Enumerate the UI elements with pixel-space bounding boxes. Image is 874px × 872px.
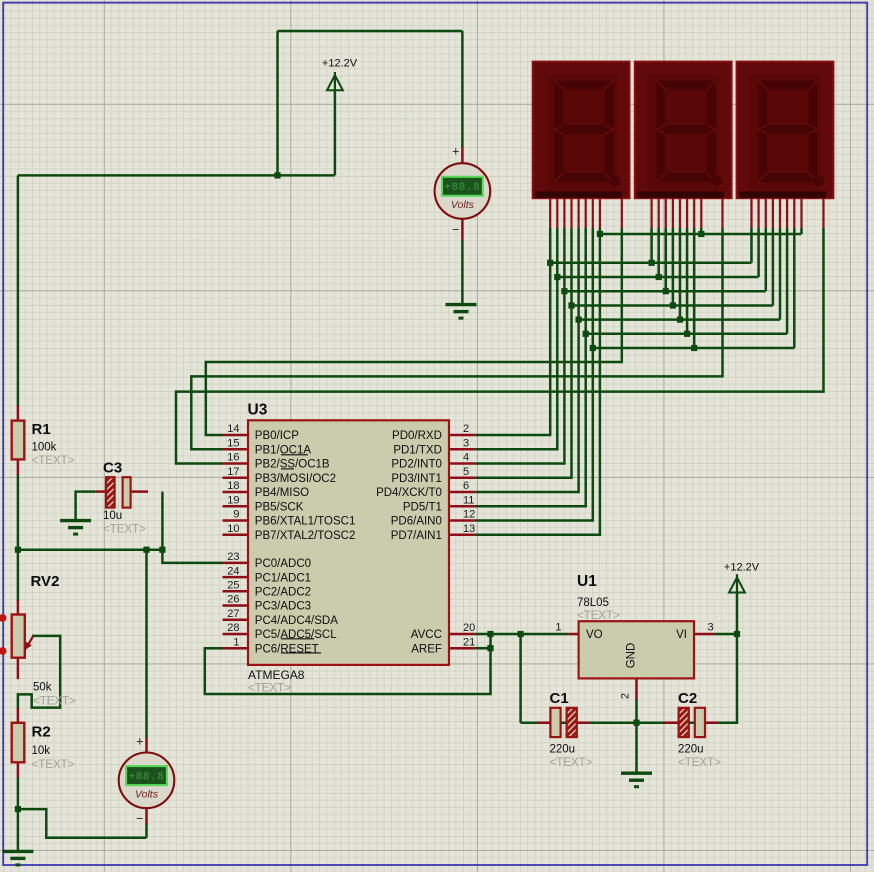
- pin stub C1 right: [577, 721, 590, 724]
- node junction at 737,634: [734, 631, 740, 637]
- pin stub R2 bottom: [17, 762, 20, 777]
- 7-segment display D1: [533, 62, 630, 199]
- wire PC6/RESET loop: [205, 634, 491, 694]
- svg-text:PC0/ADC0: PC0/ADC0: [255, 558, 311, 570]
- svg-text:PB6/XTAL1/TOSC1: PB6/XTAL1/TOSC1: [255, 516, 356, 528]
- svg-text:R1: R1: [32, 421, 51, 438]
- pin stub C3 right: [130, 490, 148, 493]
- svg-text:PB3/MOSI/OC2: PB3/MOSI/OC2: [255, 473, 336, 485]
- 7-segment display D2: [635, 62, 732, 199]
- wire PB0 to display1 common: [206, 228, 622, 435]
- power +12.2V symbol top left: [327, 72, 343, 92]
- svg-text:18: 18: [227, 480, 239, 492]
- wire voltmeter2 bottom route: [18, 809, 147, 838]
- ground near U1: [621, 773, 652, 787]
- svg-text:14: 14: [227, 423, 239, 435]
- ground near C3: [60, 521, 91, 535]
- svg-text:5: 5: [463, 466, 469, 478]
- node junction sege display2: [677, 317, 683, 323]
- capacitor C3: [106, 477, 131, 507]
- svg-text:U1: U1: [577, 573, 597, 590]
- node junction at 520.6,634.0: [518, 631, 524, 637]
- node junction at 17.9,809.1: [15, 806, 21, 812]
- svg-text:+88.8: +88.8: [128, 771, 164, 783]
- wire R1 bottom to junction: [17, 474, 20, 549]
- node junction at 490.5,634.0: [487, 631, 493, 637]
- voltmeter V2 body: [119, 753, 175, 809]
- svg-text:15: 15: [227, 438, 239, 450]
- svg-text:Volts: Volts: [451, 199, 475, 211]
- svg-text:10u: 10u: [103, 510, 122, 522]
- svg-text:<TEXT>: <TEXT>: [248, 683, 291, 695]
- wire PB2 to display3 common: [176, 228, 824, 464]
- svg-text:21: 21: [463, 636, 475, 648]
- svg-text:100k: 100k: [32, 442, 57, 454]
- svg-text:+12.2V: +12.2V: [724, 562, 760, 574]
- svg-text:PC3/ADC3: PC3/ADC3: [255, 601, 311, 613]
- svg-text:−: −: [136, 812, 143, 826]
- svg-text:2: 2: [620, 693, 632, 699]
- wire PD5 pin11 stub run: [475, 228, 586, 506]
- U3 PC pin stubs 23 24 25 26 27 28 1: [223, 563, 249, 648]
- node junction segc display1: [561, 288, 567, 294]
- voltmeter V1 LCD readout +88.8: [442, 177, 483, 196]
- display1 pins: [550, 198, 622, 228]
- U3 overlines on SS ADC5 RESET: [281, 455, 321, 653]
- svg-text:RV2: RV2: [31, 573, 60, 590]
- node junction at 146.5,549.7: [143, 547, 149, 553]
- pin stub RV2 top: [17, 600, 20, 614]
- node junction at 636.5,722.7: [633, 720, 639, 726]
- wire voltmeter1 bottom to ground: [461, 240, 464, 304]
- wire segment net d tie line: [572, 304, 773, 307]
- node junction at 162.4,549.7: [159, 547, 165, 553]
- wire voltmeter2 top lead: [145, 550, 148, 738]
- display2 pins: [652, 198, 723, 228]
- svg-text:C2: C2: [678, 690, 697, 707]
- pin stub C1 left: [537, 721, 550, 724]
- wire C1-C2 bottom rail: [521, 721, 737, 724]
- svg-text:220u: 220u: [550, 744, 576, 756]
- svg-text:220u: 220u: [678, 744, 704, 756]
- node junction segd display1: [568, 302, 574, 308]
- wire +12V rail horizontal: [18, 174, 335, 177]
- wire display3 pin6 drop: [786, 228, 789, 334]
- svg-text:PC5/ADC5/SCL: PC5/ADC5/SCL: [255, 629, 337, 641]
- node junction segg display2: [691, 345, 697, 351]
- svg-text:C1: C1: [550, 690, 569, 707]
- svg-text:PC2/ADC2: PC2/ADC2: [255, 587, 311, 599]
- U3 PB port labels: [255, 430, 356, 542]
- wire segment net e tie line: [579, 318, 780, 321]
- svg-text:<TEXT>: <TEXT>: [103, 524, 146, 536]
- node junction segb display2: [656, 274, 662, 280]
- node junction at 277.5,175.4: [274, 172, 280, 178]
- svg-text:C3: C3: [103, 460, 122, 477]
- node junction at 17.9,549.7: [15, 547, 21, 553]
- svg-text:1: 1: [233, 636, 239, 648]
- U3 PC port labels: [255, 558, 338, 655]
- svg-text:16: 16: [227, 452, 239, 464]
- capacitor C2: [679, 708, 705, 737]
- svg-text:PD1/TXD: PD1/TXD: [393, 445, 442, 457]
- svg-text:AREF: AREF: [411, 643, 442, 655]
- IC U1 body: [579, 621, 694, 678]
- svg-text:27: 27: [227, 608, 239, 620]
- wire C3 left lead to ground: [76, 492, 96, 521]
- wire display3 pin1 drop: [750, 228, 753, 263]
- ground near voltmeter V1: [446, 305, 477, 319]
- node junction segh display2: [698, 231, 704, 237]
- wire segment net g tie line: [593, 347, 795, 350]
- U3 left pin numbers PC: [227, 551, 239, 648]
- wire display2 pin5 drop: [679, 228, 682, 320]
- svg-text:<TEXT>: <TEXT>: [678, 757, 721, 769]
- wire voltmeter2 bottom lead: [145, 824, 148, 838]
- svg-text:20: 20: [463, 622, 475, 634]
- wire C1 left lead riser: [519, 634, 522, 723]
- wire display3 pin7 drop: [793, 228, 796, 348]
- svg-text:VI: VI: [676, 629, 687, 641]
- node junction segg display1: [590, 345, 596, 351]
- pin stub C2 left: [664, 721, 679, 724]
- node junction sega display1: [547, 260, 553, 266]
- wire AVCC to U1 VO: [475, 633, 568, 636]
- svg-text:78L05: 78L05: [577, 597, 609, 609]
- wire RV2 wiper path: [18, 636, 60, 709]
- svg-text:+: +: [452, 145, 459, 159]
- wire PD3 pin5 stub run: [475, 228, 572, 478]
- pin stub R2 top: [17, 709, 20, 724]
- svg-text:9: 9: [233, 509, 239, 521]
- wire voltmeter1 top lead: [461, 31, 464, 147]
- wire display3 pin4 drop: [772, 228, 775, 306]
- wire display3 pin3 drop: [765, 228, 768, 291]
- svg-text:PB5/SCK: PB5/SCK: [255, 502, 304, 514]
- wire segment net c tie line: [564, 290, 765, 293]
- U3 left pin numbers PB: [227, 423, 239, 535]
- power +12.2V symbol near U1: [729, 574, 745, 594]
- svg-text:24: 24: [227, 565, 239, 577]
- svg-text:PC6/RESET: PC6/RESET: [255, 643, 319, 655]
- svg-text:U3: U3: [248, 402, 268, 419]
- svg-text:<TEXT>: <TEXT>: [33, 696, 76, 708]
- svg-text:12: 12: [463, 509, 475, 521]
- wire display3 pin2 drop: [757, 228, 760, 277]
- node junction segd display2: [670, 302, 676, 308]
- svg-text:1: 1: [555, 622, 561, 634]
- wire PD6 pin12 stub run: [475, 228, 593, 521]
- pin stub C3 left: [96, 490, 107, 493]
- potentiometer RV2: [12, 615, 33, 658]
- wire PD0 pin2 stub run: [475, 228, 550, 435]
- wire segment net a tie line: [550, 262, 751, 265]
- svg-text:PD0/RXD: PD0/RXD: [392, 430, 442, 442]
- pin stub voltmeter1 plus: [461, 147, 464, 164]
- svg-text:11: 11: [463, 495, 474, 507]
- IC U3 body: [248, 420, 449, 665]
- svg-text:10k: 10k: [32, 745, 51, 757]
- wire U1 VI to +12V node: [715, 633, 738, 636]
- wire +12V top horizontal: [278, 30, 463, 33]
- U3 PB pin stubs 14 15 16 17 18 19 9 10: [223, 435, 249, 535]
- pin stub voltmeter1 minus: [461, 218, 464, 241]
- wire +12V vertical drop: [276, 31, 279, 175]
- node junction segh display1: [597, 231, 603, 237]
- node junction segf display1: [583, 331, 589, 337]
- wire display2 pin3 drop: [665, 228, 668, 291]
- svg-text:50k: 50k: [33, 682, 52, 694]
- wire display2 pin2 drop: [657, 228, 660, 277]
- svg-text:<TEXT>: <TEXT>: [32, 759, 75, 771]
- svg-text:28: 28: [227, 622, 239, 634]
- svg-text:6: 6: [463, 480, 469, 492]
- wire junction down to RV2: [17, 550, 20, 601]
- svg-text:R2: R2: [32, 724, 51, 741]
- wire +12V arrow2 stem: [736, 593, 739, 634]
- svg-text:PD5/T1: PD5/T1: [403, 502, 442, 514]
- pin stub C2 right: [705, 721, 718, 724]
- svg-text:AVCC: AVCC: [411, 629, 442, 641]
- pin stub R1 bottom: [17, 459, 20, 475]
- wire display2 pin4 drop: [672, 228, 675, 306]
- svg-text:25: 25: [227, 580, 239, 592]
- pin stub U1 VO pin1: [568, 633, 578, 636]
- pin stub voltmeter2 minus: [145, 807, 148, 824]
- svg-text:4: 4: [463, 452, 469, 464]
- wire display2 pin1 drop: [650, 228, 653, 263]
- pin stub RV2 bottom dangling: [17, 658, 20, 680]
- wire segment net b tie line: [557, 276, 758, 279]
- svg-text:2: 2: [463, 423, 469, 435]
- svg-text:19: 19: [227, 495, 239, 507]
- wire display2 pin8 drop: [700, 228, 703, 234]
- svg-text:26: 26: [227, 594, 239, 606]
- wire PB1 to display2 common: [191, 228, 722, 449]
- pin stub U1 GND pin2: [635, 678, 638, 699]
- node RV2 terminal marker bottom: [0, 647, 7, 655]
- wire GND junction to ground4: [635, 723, 638, 774]
- svg-text:<TEXT>: <TEXT>: [32, 455, 75, 467]
- svg-text:GND: GND: [626, 643, 638, 669]
- svg-text:Volts: Volts: [135, 789, 159, 801]
- wire +12V node down to C2: [718, 634, 738, 723]
- svg-text:23: 23: [227, 551, 239, 563]
- ground bottom left: [2, 851, 33, 865]
- U3 PD port labels: [376, 430, 442, 542]
- wire left rail to R1: [17, 175, 20, 406]
- node RV2 terminal marker top: [0, 614, 7, 622]
- node junction segb display1: [554, 274, 560, 280]
- svg-text:<TEXT>: <TEXT>: [550, 757, 593, 769]
- node junction sega display2: [649, 260, 655, 266]
- wire PD2 pin4 stub run: [475, 228, 565, 464]
- svg-text:PD6/AIN0: PD6/AIN0: [391, 516, 442, 528]
- wire net549 horizontal: [18, 548, 163, 551]
- U3 PD and AVCC AREF pin stubs: [449, 435, 475, 648]
- pin stub U1 VI pin3: [694, 633, 715, 636]
- wire U1 GND pin lead: [635, 699, 638, 723]
- wire C3 right lead drop: [161, 492, 164, 550]
- resistor R1: [12, 421, 25, 460]
- svg-text:3: 3: [463, 438, 469, 450]
- wire display3 pin5 drop: [779, 228, 782, 320]
- node junction sege display1: [576, 317, 582, 323]
- svg-text:+: +: [136, 735, 143, 749]
- wire display2 pin7 drop: [693, 228, 696, 348]
- wire segment net f tie line: [586, 333, 787, 336]
- svg-text:10: 10: [227, 523, 239, 535]
- svg-text:VO: VO: [586, 629, 603, 641]
- wire junction to ground2: [17, 809, 20, 851]
- node junction segf display2: [684, 331, 690, 337]
- wire net549 down-step to PC0: [162, 550, 222, 563]
- svg-text:PB0/ICP: PB0/ICP: [255, 430, 299, 442]
- node junction at 490.5,648.2: [487, 645, 493, 651]
- wire +12V arrow stem: [334, 90, 337, 175]
- 7-segment display D3: [737, 62, 834, 199]
- wire PD7 pin13 stub run: [475, 228, 600, 535]
- svg-text:PD3/INT1: PD3/INT1: [391, 473, 442, 485]
- svg-text:3: 3: [708, 622, 714, 634]
- U3 right pin numbers: [463, 423, 475, 648]
- wire AREF stub: [475, 647, 491, 650]
- wire display2 pin6 drop: [686, 228, 689, 334]
- svg-text:13: 13: [463, 523, 475, 535]
- svg-text:PC1/ADC1: PC1/ADC1: [255, 572, 311, 584]
- svg-text:ATMEGA8: ATMEGA8: [248, 668, 305, 682]
- svg-text:<TEXT>: <TEXT>: [577, 610, 620, 622]
- svg-text:PB4/MISO: PB4/MISO: [255, 487, 309, 499]
- wire PD4 pin6 stub run: [475, 228, 579, 492]
- wire R2 bottom to junction: [17, 777, 20, 809]
- svg-text:+88.8: +88.8: [444, 182, 480, 194]
- svg-text:−: −: [452, 223, 459, 237]
- svg-text:PB7/XTAL2/TOSC2: PB7/XTAL2/TOSC2: [255, 530, 356, 542]
- voltmeter V2 LCD readout +88.8: [126, 766, 167, 785]
- node junction segc display2: [663, 288, 669, 294]
- svg-text:PD7/AIN1: PD7/AIN1: [391, 530, 442, 542]
- wire PD1 pin3 stub run: [475, 228, 557, 449]
- display3 pins: [752, 198, 824, 228]
- svg-text:PD4/XCK/T0: PD4/XCK/T0: [376, 487, 442, 499]
- svg-text:+12.2V: +12.2V: [322, 57, 358, 69]
- svg-text:17: 17: [227, 466, 239, 478]
- pin stub R1 top: [17, 405, 20, 421]
- pin stub voltmeter2 plus: [145, 738, 148, 755]
- wire display3 pin8 drop: [800, 228, 803, 234]
- svg-text:PD2/INT0: PD2/INT0: [391, 459, 442, 471]
- svg-text:PC4/ADC4/SDA: PC4/ADC4/SDA: [255, 615, 338, 627]
- capacitor C1: [550, 708, 576, 737]
- resistor R2: [12, 723, 25, 763]
- wire segment net h tie line: [600, 233, 802, 236]
- voltmeter V1 body: [435, 163, 491, 219]
